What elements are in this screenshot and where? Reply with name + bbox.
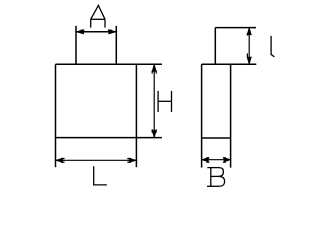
- wire: [202, 137, 231, 139]
- wire: [76, 31, 116, 33]
- dimension B arrows: [202, 158, 230, 163]
- wire: [56, 137, 162, 139]
- wire: [135, 64, 137, 167]
- dimension H arrows: [152, 65, 156, 137]
- dimension A arrows: [77, 30, 116, 34]
- label A: [91, 5, 105, 27]
- wire: [215, 27, 256, 29]
- wire: [55, 64, 57, 167]
- front-view top boss: [76, 26, 116, 65]
- label l: [271, 36, 274, 57]
- dimension H line: [153, 64, 155, 137]
- dimension L arrows: [56, 158, 136, 162]
- wire: [202, 63, 257, 65]
- front-view body outline: [56, 64, 163, 167]
- wire: [201, 64, 203, 167]
- wire: [75, 26, 77, 65]
- wire: [56, 63, 163, 65]
- side-view top boss: [215, 28, 256, 65]
- label B: [207, 168, 225, 187]
- wire: [230, 64, 232, 167]
- dimension B line: [202, 159, 231, 161]
- side-view body outline: [202, 64, 257, 167]
- label L: [94, 166, 107, 185]
- wire: [214, 28, 216, 65]
- dimension l arrows: [247, 28, 251, 64]
- dimension L line: [56, 159, 137, 161]
- dimension l line: [248, 28, 250, 65]
- wire: [115, 26, 117, 65]
- label H: [158, 91, 171, 112]
